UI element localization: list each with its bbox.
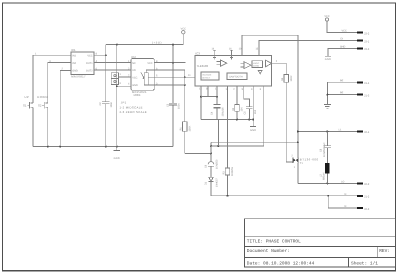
svg-text:10K: 10K [241,107,244,112]
link from gnd bus [217,120,219,147]
wire IC2 pin8 [154,62,185,64]
svg-text:DI: DI [341,38,344,41]
net labels right column [339,30,347,209]
IC3 top pin stubs [213,50,215,55]
svg-text:3K3/2W: 3K3/2W [231,166,234,176]
svg-text:GND: GND [72,70,78,73]
svg-text:GND: GND [250,129,256,132]
svg-text:100u/16: 100u/16 [222,107,225,117]
connector pin J1-2 [357,195,370,199]
svg-text:1N4007: 1N4007 [215,178,218,187]
earth symbol PE [324,105,331,109]
svg-text:100n: 100n [177,103,180,109]
title block [245,219,396,267]
resistor R4 100R [281,75,293,83]
svg-text:VCC: VCC [342,30,347,33]
svg-text:TLE3103: TLE3103 [197,64,209,68]
triac T1 BT136-600 [291,154,318,183]
svg-text:PE: PE [340,79,344,82]
svg-text:1-2 MIDSCALE: 1-2 MIDSCALE [120,106,143,110]
output buffer [266,60,272,67]
svg-text:2n2: 2n2 [254,109,257,114]
svg-text:Date: 08.10.2008 12:00:44: Date: 08.10.2008 12:00:44 [247,260,315,266]
IC3 bottom pin12 wire [200,85,202,119]
analog gnd bus below IC3 [201,119,253,121]
svg-text:N: N [345,205,347,208]
svg-text:J3-2: J3-2 [364,32,370,35]
svg-text:S1: S1 [23,104,27,108]
svg-text:(+5U): (+5U) [152,41,162,45]
svg-text:J1-1: J1-1 [364,82,370,85]
jumper JP1 [111,73,121,85]
long vertical with C2 [105,45,107,102]
electrolytic capacitor C4 100u/16 [211,85,225,119]
svg-text:OUT1: OUT1 [86,62,93,65]
node wire A1 [211,141,298,143]
svg-text:IC2: IC2 [131,55,136,59]
wire IC3 pin13 to J3-1 [259,41,357,56]
wire R1 to C6 node [185,153,211,155]
inductor L2 [320,163,330,183]
svg-text:LO: LO [341,180,344,183]
svg-text:2-3 ZERO SCALE: 2-3 ZERO SCALE [120,110,147,114]
VCC rail [106,34,184,45]
svg-text:UP: UP [25,95,30,99]
link wire [201,96,217,98]
connector pin J2-1 [357,131,370,135]
svg-text:IN2: IN2 [72,62,77,65]
svg-text:VCC: VCC [324,15,329,18]
neutral bus wire N [211,195,357,197]
svg-text:OUT2: OUT2 [86,70,93,73]
ground symbol GND [250,127,256,132]
VCC supply symbol at J3 [324,15,357,33]
IC3 pin numbers [188,47,278,90]
IC3 pin15 wire down through R3 [227,85,229,168]
wire IC2 pin6 [154,70,185,77]
IC3 pin3 wire down [263,85,265,146]
svg-text:J3-1: J3-1 [364,40,370,43]
mains detect block [201,72,219,80]
connector pin J1-1 [357,81,370,85]
wire IC2 pin5 to IC3 pin11 [154,76,195,78]
pot symbol inside IC2 [144,73,148,85]
load wire LO [298,182,357,184]
diode D1 1N4007 [205,177,219,196]
wire IC1 pin1 to S1 [33,55,71,103]
svg-text:SAWTOOTH: SAWTOOTH [229,76,243,79]
svg-text:IC1: IC1 [71,48,76,52]
wire PE to J1-1 and J1-3 [327,82,357,104]
svg-text:10N/250: 10N/250 [215,159,218,169]
svg-text:J1-3: J1-3 [364,94,370,97]
wire L1 to J2-1 [298,131,357,133]
svg-text:S2: S2 [38,104,42,108]
IC2 pin numbers [128,60,158,86]
logic block [252,61,263,68]
comparator B [244,62,251,69]
node wire A2 [211,145,264,147]
svg-text:GND: GND [114,157,120,160]
long vertical with JP1 [116,45,118,147]
svg-text:Sheet: 1/1: Sheet: 1/1 [351,260,378,266]
svg-text:VCC: VCC [132,77,137,80]
wire IC3 pin2 to gate resistor [272,63,287,74]
wire to IC2 pin4 [117,85,131,87]
svg-text:J2-3: J2-3 [364,208,370,211]
JP1 note text [120,101,147,114]
svg-text:680uH: 680uH [323,172,326,180]
vertical with C3 [172,45,174,104]
svg-text:GND: GND [325,58,331,61]
wire to J2-3 [328,196,357,208]
svg-text:100n: 100n [110,101,113,107]
gnd bus wire [33,146,173,148]
wire JP1 to IC2 pin7 [119,76,131,78]
ground symbol GND at J3 [325,56,331,61]
IC3 phase controller TLE3103 [195,52,272,86]
snubber capacitor C8 10N/250VAC [320,132,331,164]
wire J3-3 shutdown [328,48,357,56]
junction dots on gnd bus [47,146,49,148]
connector pin J1-3 [357,94,370,98]
svg-text:DOWN: DOWN [37,95,47,99]
wire IC2 pin3 [154,84,185,86]
connector pin J3-3 [357,48,370,52]
svg-text:DETECT: DETECT [202,77,211,80]
svg-text:100K: 100K [133,93,141,97]
wire IC1 pin8 VCC [94,54,106,56]
svg-text:100R: 100R [290,75,293,81]
wire IC1 pin2 to S2 [48,63,71,103]
svg-text:J1-2: J1-2 [364,196,370,199]
switch S2 DOWN [37,95,48,147]
svg-text:IN1: IN1 [72,54,77,57]
capacitor C5 2n2 [243,85,256,119]
IC3 pin8 wire [207,85,209,96]
sawtooth block [227,73,247,80]
svg-text:LOGIC: LOGIC [253,62,260,65]
vertical chain C6 D1 [210,142,212,161]
svg-text:PE: PE [340,92,344,95]
IC3 pin9 gnd wire [252,85,254,126]
wire IC1 OUT2 to IC2 pin2 [94,69,131,71]
svg-text:J2-2: J2-2 [364,183,370,186]
capacitor C2 100n [99,101,113,107]
comparator A [220,60,226,66]
resistor R2 10K [232,85,244,119]
svg-text:JP1: JP1 [121,101,127,105]
wire R4 to triac gate [286,82,293,162]
svg-text:TITLE: PHASE CONTROL: TITLE: PHASE CONTROL [247,239,301,245]
IC2 digital pot AD5220 [131,55,154,97]
svg-text:UD: UD [132,69,136,72]
svg-text:N: N [345,193,347,196]
svg-text:MAX6817: MAX6817 [71,74,86,78]
connector pin J3-2 [357,32,370,36]
svg-text:Document Number:: Document Number: [247,248,290,254]
capacitor C3 100n [166,103,180,109]
wire IC1 pin3 to gnd bus [60,70,71,146]
switch S1 UP [23,95,33,147]
svg-text:200/62: 200/62 [253,64,260,67]
svg-text:GND: GND [132,84,138,87]
wire IC1 OUT1 to IC2 pin1 [94,62,131,64]
svg-text:VCC: VCC [147,62,152,65]
resistor R1 100K [180,122,192,132]
IC1 debouncer MAX6817 [71,48,94,78]
svg-text:J3-3: J3-3 [364,48,370,51]
svg-text:NC: NC [132,62,136,65]
resistor R3 3K3 [222,166,234,195]
svg-text:VCC: VCC [181,27,186,30]
svg-text:J2-1: J2-1 [364,131,370,134]
connector pin J2-3 [357,207,370,211]
IC1 pin numbers [35,53,98,71]
capacitor C6 10n/250 [205,159,219,177]
wire IC3 pin10 sync input from L1 [242,35,298,158]
svg-text:100K: 100K [188,125,191,131]
VCC supply symbol [181,27,186,34]
connector pin J2-2 [357,183,370,187]
ground symbol GND [114,147,120,160]
svg-text:VOLTAGE: VOLTAGE [202,73,212,76]
svg-text:10N/250VAC: 10N/250VAC [323,142,326,157]
svg-text:VCC: VCC [87,54,92,57]
svg-text:SHD: SHD [340,45,345,48]
vertical with R1 [184,77,186,122]
svg-text:IC3: IC3 [195,52,200,56]
connector pin J3-1 [357,40,370,44]
svg-text:REV:: REV: [379,249,390,254]
internal marks [213,55,215,59]
